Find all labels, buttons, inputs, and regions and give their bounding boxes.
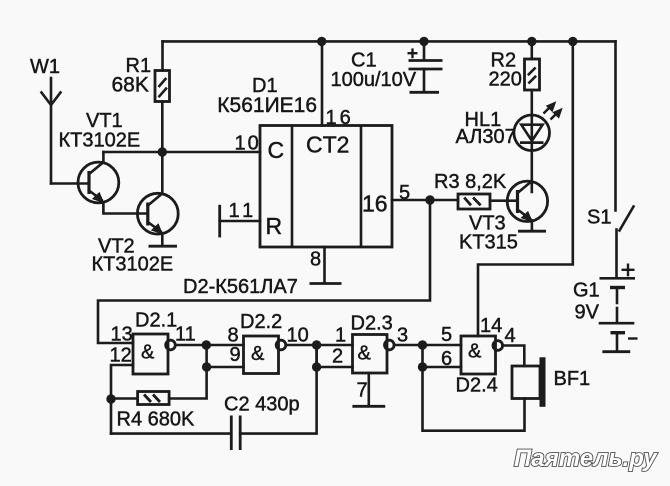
svg-text:68K: 68K — [112, 74, 149, 97]
transistor VT3 — [507, 181, 547, 222]
svg-text:4: 4 — [505, 325, 516, 347]
wire node down — [315, 345, 318, 367]
svg-text:12: 12 — [110, 345, 132, 367]
node pin5/R3/feedback — [425, 195, 434, 204]
node R4 left — [106, 394, 115, 403]
svg-text:5: 5 — [441, 324, 452, 346]
svg-text:3: 3 — [397, 325, 408, 347]
battery G1 plus sign — [622, 264, 635, 277]
svg-text:13: 13 — [111, 324, 133, 346]
capacitor C1 — [408, 41, 443, 91]
wire VT1 emitter to VT2 base — [103, 202, 147, 214]
wire feedback pin5 to D2.1 input 13 — [98, 200, 430, 343]
pin 11 wire — [220, 220, 260, 223]
svg-text:9: 9 — [230, 344, 241, 366]
ground VT2 — [149, 245, 178, 248]
svg-text:6: 6 — [441, 348, 452, 370]
wire R4 right lead up to node — [169, 367, 207, 399]
wire S1 lower lead — [615, 230, 618, 277]
LED HL1 emission arrows — [544, 101, 563, 119]
svg-text:8: 8 — [310, 249, 321, 271]
wire R2 top lead — [530, 41, 533, 59]
gate D2.3 — [353, 335, 395, 374]
wire R2 to HL1 to VT3 collector — [530, 90, 533, 192]
svg-text:10: 10 — [235, 133, 261, 155]
svg-text:&: & — [468, 341, 482, 363]
resistor R1 — [155, 71, 170, 102]
wire R1 bottom lead — [161, 102, 164, 153]
svg-text:R3 8,2K: R3 8,2K — [434, 171, 507, 193]
transistor VT1 — [78, 162, 119, 203]
wire S1 upper lead — [614, 41, 617, 210]
svg-text:14: 14 — [480, 315, 502, 337]
svg-text:C: C — [268, 137, 285, 163]
wire VT3 emitter down — [531, 221, 534, 231]
svg-text:1: 1 — [335, 325, 346, 347]
wire D1 pin 5 to R3 — [392, 199, 458, 202]
LED HL1 — [514, 115, 550, 151]
svg-text:АЛ307: АЛ307 — [456, 126, 516, 148]
antenna W1 — [42, 78, 61, 184]
wire pin 12 branch — [111, 365, 133, 399]
svg-text:КТ3102Е: КТ3102Е — [59, 130, 141, 152]
svg-text:&: & — [141, 342, 155, 364]
svg-text:К561ИЕ16: К561ИЕ16 — [217, 94, 317, 117]
battery G1 cell 2 — [599, 308, 635, 351]
svg-text:S1: S1 — [587, 207, 611, 229]
node D2.2 out upper — [312, 340, 321, 349]
svg-text:D2-К561ЛА7: D2-К561ЛА7 — [183, 276, 298, 298]
wire R4 left lead — [111, 397, 138, 400]
svg-text:W1: W1 — [30, 56, 60, 78]
wire VT2 emitter down — [161, 233, 164, 246]
svg-text:16: 16 — [326, 107, 354, 129]
svg-text:C2 430p: C2 430p — [224, 394, 300, 416]
ground VT3 — [518, 230, 546, 233]
svg-text:D2.4: D2.4 — [456, 375, 498, 397]
wire to D2.2 pin 9 — [207, 366, 244, 369]
wire VT1 collector to D1 C input pin 10 — [103, 151, 260, 154]
node D2.3 out upper — [418, 340, 427, 349]
IC D1 counter box — [260, 126, 392, 248]
gate D2.4 — [461, 336, 503, 374]
node rail/R2 — [527, 37, 536, 46]
ground battery bottom — [602, 350, 630, 353]
node junction R1/VT2/D1-C — [158, 147, 167, 156]
speaker BF1 — [512, 357, 546, 407]
wire bottom run to C2 — [111, 432, 231, 435]
node rail/D2.4 supply branch — [568, 37, 577, 46]
resistor R2 — [525, 59, 540, 90]
wire node down to bottom run — [110, 399, 113, 434]
svg-text:D2.3: D2.3 — [351, 313, 393, 335]
wire D2.4 output to BF1 — [503, 346, 525, 367]
wire VT2 collector to junction — [161, 152, 164, 194]
node rail/C1 — [419, 37, 428, 46]
node D2.2 out lower — [312, 362, 321, 371]
gate D2.1 — [133, 334, 175, 374]
svg-text:D2.2: D2.2 — [240, 311, 282, 333]
svg-text:2: 2 — [332, 346, 343, 368]
ground D2.3 pin 7 — [352, 405, 385, 408]
svg-text:10: 10 — [287, 325, 309, 347]
wire R3 to VT3 base — [490, 199, 517, 202]
svg-text:BF1: BF1 — [554, 368, 591, 390]
svg-text:D2.1: D2.1 — [135, 310, 177, 332]
node D2.1 out lower — [202, 362, 211, 371]
svg-text:&: & — [251, 343, 265, 365]
wire D2.3 output to D2.4 pin 5 — [394, 344, 461, 347]
switch S1 blade — [620, 207, 634, 231]
wire D1 pin 16 to rail — [321, 41, 324, 125]
svg-text:7: 7 — [357, 380, 368, 402]
svg-text:G1: G1 — [573, 280, 600, 302]
wire rail down to pin 14 run — [478, 41, 573, 336]
wire D1 pin 8 down — [323, 247, 326, 283]
node D2.3 out lower — [418, 362, 427, 371]
ground C1 — [410, 91, 440, 94]
wire node to bottom BF1 run — [423, 367, 525, 431]
resistor R3 — [458, 194, 490, 209]
svg-text:100u/10V: 100u/10V — [331, 69, 417, 91]
node D2.1 out upper — [202, 340, 211, 349]
svg-text:R4 680K: R4 680K — [117, 409, 195, 431]
wire D2.1 output to D2.2 pin 8 — [175, 344, 243, 347]
svg-text:11: 11 — [229, 200, 258, 222]
wire C2 to D2.3 inputs riser — [240, 345, 316, 434]
svg-text:CT2: CT2 — [306, 132, 349, 158]
svg-text:KT315: KT315 — [459, 232, 518, 254]
capacitor C2 — [231, 416, 240, 451]
svg-text:16: 16 — [362, 191, 388, 217]
svg-text:11: 11 — [175, 324, 196, 346]
resistor R4 — [138, 392, 170, 405]
pin 11 end bar — [218, 205, 221, 238]
battery G1 minus sign — [628, 337, 638, 339]
svg-text:R: R — [266, 213, 283, 239]
battery G1 cell 1 — [600, 278, 636, 303]
wire W1 to VT1 base — [51, 182, 89, 185]
wire D2.2 output to D2.3 pin 1 — [286, 344, 353, 347]
wire VT1 collector up — [102, 152, 105, 162]
wire to D2.4 pin 6 — [423, 366, 462, 369]
svg-text:220: 220 — [489, 69, 522, 91]
wire top supply rail — [163, 40, 616, 43]
wire D2.3 pin 7 down — [367, 373, 370, 406]
gate D2.2 — [244, 336, 286, 374]
svg-text:КТ3102Е: КТ3102Е — [92, 254, 174, 276]
wire node down — [421, 345, 424, 367]
wire node down — [205, 345, 208, 367]
wire to D2.3 pin 2 — [317, 366, 353, 369]
svg-text:9V: 9V — [575, 302, 600, 324]
transistor VT2 — [137, 193, 178, 234]
svg-text:Паятель.ру: Паятель.ру — [514, 445, 658, 472]
wire R1 top lead — [161, 41, 164, 70]
ground D1 pin 8 — [310, 282, 342, 285]
svg-text:&: & — [358, 343, 372, 365]
node rail/pin16 — [317, 37, 326, 46]
